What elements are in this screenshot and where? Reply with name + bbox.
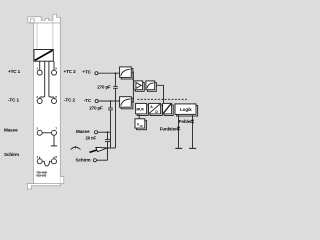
svg-text:-TC 1: -TC 1: [8, 97, 20, 102]
filter F1 (+TC channel, double box with response curve): [120, 67, 133, 79]
terminal 5 (+TC 2): [52, 70, 57, 75]
svg-text:+TC 2: +TC 2: [64, 69, 77, 74]
junction +TC/C1: [115, 72, 117, 74]
svg-text:+TC 1: +TC 1: [8, 69, 21, 74]
wire U1 to terminal 5: [53, 61, 55, 70]
wire F3 output down to isolator: [156, 85, 163, 103]
wire +TC to filter F1: [98, 72, 120, 74]
wire U1 to terminal 6: [49, 61, 54, 98]
ground (Fehler LED return): [189, 147, 196, 149]
terminal 7 (Masse): [52, 130, 57, 135]
wire terminal 7 to internal ground: [53, 135, 55, 146]
switch S1 blade (Masse-Schirm jumper): [90, 147, 108, 152]
node -TC input terminal: [95, 100, 98, 103]
wire stub above terminal 8: [53, 157, 55, 159]
node Masse input terminal: [95, 131, 98, 134]
svg-text:Schirm: Schirm: [76, 157, 91, 162]
svg-text:Fehler: Fehler: [179, 119, 192, 124]
node Schirm input terminal: [93, 159, 96, 162]
capacitor C1 270 pF (+TC to shield rail): [113, 73, 118, 88]
wire Schirm up to shield node: [107, 148, 109, 160]
thermocouple converter block U1 (box with diagonal): [34, 50, 53, 62]
wire stub above terminal 4: [39, 157, 41, 159]
wire Masse input: [97, 131, 110, 133]
wire bridge terminal 4 to terminal 8 (dip): [42, 161, 52, 166]
svg-text:Masse: Masse: [76, 129, 90, 134]
svg-text:003-000: 003-000: [36, 174, 46, 178]
svg-text:-TC 2: -TC 2: [64, 97, 76, 102]
wire bridge terminal 3 to terminal 7: [42, 132, 52, 134]
MUX U3 (multiplexer box): [136, 103, 149, 115]
A/D converter U4: [149, 103, 163, 115]
wire Schirm input: [96, 159, 107, 161]
svg-text:Schirm: Schirm: [4, 152, 19, 157]
module bottom mounting feet: [27, 177, 63, 190]
terminal 8 (Schirm): [52, 159, 57, 164]
svg-text:-TC: -TC: [84, 98, 92, 103]
wire F2 output to amplifier input: [131, 86, 133, 103]
jumper configuration arc icon: [71, 146, 81, 150]
terminal 1 (+TC 1): [37, 70, 42, 75]
wire U1 to terminal 1: [39, 61, 41, 70]
optocoupler U5 (isolator slash box): [163, 103, 174, 115]
capacitor C2 270 pF (-TC to shield rail): [108, 101, 113, 110]
svg-text:270 pF: 270 pF: [89, 106, 103, 111]
terminal 2 (-TC 1): [37, 99, 42, 104]
svg-text:+TC: +TC: [82, 70, 91, 75]
node +TC input terminal: [95, 72, 98, 75]
junction shield node: [107, 147, 109, 149]
svg-text:CC: CC: [140, 125, 144, 128]
wire F1 output to amplifier input: [131, 72, 134, 85]
capacitor C3 20 nF (Masse to shield node): [105, 132, 110, 148]
svg-text:MUX: MUX: [137, 108, 145, 112]
wire Logik to Fehler LED: [192, 115, 194, 148]
wire shield rail from C2 down to shield node: [110, 110, 112, 148]
LED D1 Funktion: [177, 127, 180, 130]
svg-text:Logik: Logik: [180, 107, 192, 112]
svg-text:20 nF: 20 nF: [86, 136, 97, 141]
terminal 6 (-TC 2): [52, 99, 57, 104]
terminal 3 (Masse): [37, 130, 42, 135]
node shield bus bar: [107, 147, 116, 149]
svg-text:Funktion: Funktion: [160, 126, 179, 131]
junction -TC/C2: [110, 100, 112, 102]
wire shield rail from C1 down to shield node: [115, 88, 117, 148]
wire -TC to filter F2: [98, 100, 120, 102]
filter F3 (post-amplifier, double box with response curve): [146, 81, 156, 91]
svg-text:Masse: Masse: [4, 127, 18, 132]
junction Masse/C3: [107, 131, 109, 133]
module body (WAGO 750-469 bus terminal outline): [33, 17, 60, 184]
wire Logik to Funktion LED: [178, 115, 180, 148]
op-amp U2 (amplifier box with triangle): [134, 81, 144, 91]
wire MUX to Vcc box: [138, 114, 140, 119]
ground (Funktion LED return): [175, 147, 182, 149]
filter F2 (-TC channel, double box with response curve): [120, 97, 133, 109]
ground (internal Masse): [51, 145, 57, 147]
svg-text:270 pF: 270 pF: [97, 85, 111, 90]
LED D2 Fehler: [191, 120, 194, 123]
Logik box U6: [175, 104, 198, 116]
terminal 4 (Schirm): [37, 159, 42, 164]
module top DIN-rail latch profile: [28, 14, 61, 49]
Vcc supply box U7: [135, 119, 146, 130]
wire U1 to terminal 2: [40, 61, 45, 98]
galvanic isolation boundary (dashed): [138, 98, 187, 100]
